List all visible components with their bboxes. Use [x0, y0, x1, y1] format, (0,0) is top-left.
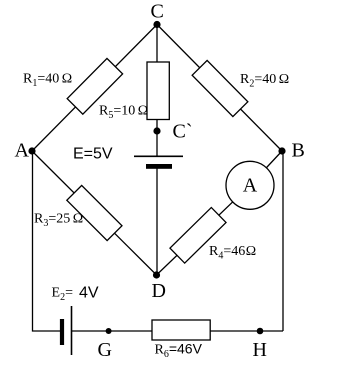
svg-text:E=5V: E=5V	[73, 146, 113, 163]
svg-text:G: G	[98, 339, 112, 361]
wire right side B down to bottom	[282, 152, 284, 332]
resistor R2	[192, 60, 248, 116]
node C'	[153, 127, 160, 134]
node G	[106, 328, 112, 334]
wire A to D	[32, 151, 157, 275]
battery E2 plate short thick	[60, 319, 64, 345]
node C	[153, 21, 160, 28]
node A	[28, 147, 35, 154]
battery E plate long	[134, 155, 183, 157]
svg-text:H: H	[253, 339, 267, 361]
svg-text:B: B	[292, 140, 305, 162]
node B	[278, 147, 285, 154]
svg-text:R1=40Ω: R1=40Ω	[23, 71, 72, 89]
svg-text:R3=25Ω: R3=25Ω	[34, 211, 83, 229]
wire D to ammeter to B	[157, 151, 283, 275]
resistor R4	[170, 207, 226, 263]
node D	[153, 271, 160, 278]
svg-text:C: C	[151, 1, 164, 23]
svg-text:A: A	[15, 140, 30, 162]
ammeter U1	[226, 161, 274, 209]
svg-text:R2=40Ω: R2=40Ω	[240, 72, 289, 90]
svg-text:4V: 4V	[79, 285, 99, 302]
resistor R6	[152, 320, 210, 340]
wire C to B	[157, 25, 282, 152]
wire A to C	[32, 25, 157, 152]
resistor R3	[67, 185, 122, 240]
svg-text:R4=46Ω: R4=46Ω	[209, 244, 256, 262]
resistor R5	[147, 62, 169, 120]
svg-text:C`: C`	[173, 121, 193, 143]
node H	[257, 328, 264, 335]
wire C to battery E top (middle branch upper)	[156, 25, 158, 157]
battery E plate short thick	[146, 164, 172, 169]
svg-text:R5=10Ω: R5=10Ω	[99, 103, 148, 121]
svg-text:D: D	[152, 280, 166, 302]
wire battery E2 to bottom right corner	[72, 330, 284, 332]
svg-text:A: A	[243, 174, 258, 196]
resistor R1	[67, 58, 122, 114]
wire battery E bottom to D (middle branch lower)	[156, 169, 158, 276]
battery E2 plate long	[71, 306, 73, 355]
wire A down left side and along bottom to battery E2	[33, 151, 61, 331]
